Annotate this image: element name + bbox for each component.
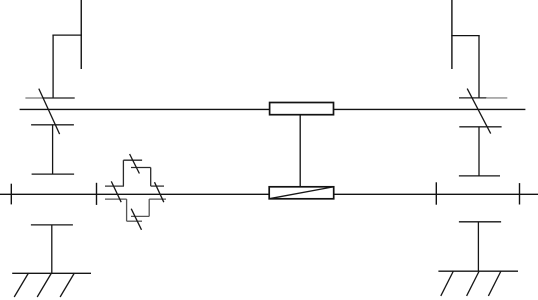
- gear z3 tick (below lower shaft, left): [31, 224, 73, 226]
- bearing tick D (lower shaft far right): [519, 183, 521, 204]
- ground hatch 1 (bottom right): [441, 271, 454, 296]
- clutch upper right arm: [151, 185, 164, 187]
- belt line: [299, 115, 301, 187]
- carrier arm stem (top left): [52, 35, 54, 98]
- carrier arm horizontal (top right): [451, 35, 479, 37]
- gear z4 bottom edge: [459, 126, 501, 128]
- key slash on gear z1: [39, 89, 60, 135]
- gear z5 tick (above lower shaft, right): [459, 175, 500, 177]
- clutch right half top edge: [131, 167, 151, 169]
- ground hatch 1 (bottom left): [14, 273, 28, 297]
- key slash clutch left: [111, 181, 121, 202]
- clutch right half bottom edge: [131, 215, 149, 217]
- bearing tick A (lower shaft far left): [10, 184, 12, 205]
- gear z1 bottom edge: [31, 124, 74, 126]
- lower shaft right segment: [334, 193, 538, 195]
- pulley P2 rectangle (lower): [269, 187, 334, 199]
- key slash clutch top: [130, 154, 140, 174]
- upper shaft left segment: [20, 108, 270, 110]
- gear z2 tick (above lower shaft, left): [32, 173, 75, 175]
- bearing tick B (lower shaft left): [96, 183, 98, 205]
- frame stem (bottom right): [477, 222, 479, 271]
- ground hatch 3 (bottom left): [60, 273, 74, 297]
- clutch lower left vertical: [126, 199, 128, 221]
- bearing tick C (lower shaft right): [435, 182, 437, 204]
- key slash clutch bottom: [131, 209, 141, 230]
- pulley P1 rectangle (upper): [270, 103, 334, 115]
- ground hatch 2 (bottom left): [37, 273, 51, 297]
- frame stem (bottom left): [51, 225, 53, 273]
- gear z6 tick (below lower shaft, right): [459, 221, 501, 223]
- gear z1 top edge: [25, 97, 74, 99]
- ground hatch 2 (bottom right): [467, 271, 480, 296]
- pulley P2 diagonal: [270, 187, 333, 199]
- ground line (bottom left): [12, 272, 91, 274]
- clutch left half top edge: [123, 159, 142, 161]
- sleeve link gear z1 to gear z2: [52, 125, 54, 174]
- lower shaft left segment: [0, 193, 269, 195]
- upper shaft right segment: [334, 108, 526, 110]
- ground hatch 3 (bottom right): [488, 271, 501, 296]
- ground line (bottom right): [438, 270, 518, 272]
- sleeve link gear z4 to gear z5: [478, 127, 480, 176]
- clutch left half bottom edge: [127, 220, 142, 222]
- clutch upper left vertical: [122, 160, 124, 186]
- carrier arm horizontal (top left): [52, 34, 82, 36]
- clutch lower left arm: [105, 198, 127, 200]
- input shaft vertical (top right): [451, 0, 453, 69]
- clutch upper left arm: [105, 185, 124, 187]
- key slash on gear z4: [467, 89, 491, 134]
- clutch lower right vertical: [148, 199, 150, 216]
- carrier arm stem (top right): [478, 36, 480, 98]
- input shaft vertical (top left): [80, 0, 82, 69]
- key slash clutch right: [155, 182, 164, 202]
- gear z4 top edge: [459, 97, 507, 99]
- clutch lower right arm: [149, 198, 166, 200]
- clutch upper right vertical: [150, 168, 152, 187]
